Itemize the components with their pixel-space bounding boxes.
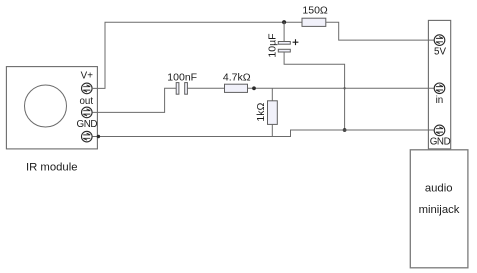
svg-text:audio: audio	[425, 183, 453, 195]
wire V+ pin to 150 ohm resistor	[92, 22, 302, 88]
junction dot on GND line below 10uF	[343, 128, 347, 132]
junction dot at IR module GND	[97, 135, 100, 138]
svg-text:V+: V+	[81, 71, 94, 82]
resistor R3 1k ohm (vertical)	[268, 101, 278, 125]
header connector box	[428, 20, 450, 149]
wire 1k resistor to GND line	[271, 124, 273, 136]
capacitor C2 100nF left plate	[176, 83, 179, 95]
wire 100nF to 4.7k resistor	[187, 87, 224, 89]
capacitor C2 100nF right plate	[185, 83, 188, 95]
capacitor C1 10uF top plate	[278, 42, 290, 45]
pin GND of IR module	[82, 131, 93, 142]
pin 5V of header	[434, 35, 445, 46]
wire GND pin of IR module to GND pin of header	[92, 130, 434, 137]
wire out pin to 100nF capacitor	[92, 88, 176, 112]
capacitor C1 10uF bottom plate	[278, 49, 290, 52]
svg-text:10µF: 10µF	[267, 33, 279, 57]
svg-text:100nF: 100nF	[167, 71, 197, 83]
wire V+ line to 10uF capacitor top plate	[283, 22, 285, 41]
svg-text:in: in	[436, 95, 444, 106]
svg-text:GND: GND	[430, 136, 451, 147]
junction dot at 10uF branch crossing in line	[343, 87, 345, 89]
pin V+ of IR module	[82, 83, 93, 94]
junction dot after 4.7k resistor	[252, 86, 256, 90]
resistor R2 4.7k ohm	[225, 84, 248, 92]
wire 10uF bottom plate to GND line	[284, 52, 345, 130]
svg-text:minijack: minijack	[419, 204, 460, 216]
resistor R1 150 ohm	[302, 18, 326, 26]
svg-text:4.7kΩ: 4.7kΩ	[223, 71, 251, 83]
wire 150 ohm resistor to 5V pin	[326, 22, 435, 40]
svg-text:150Ω: 150Ω	[302, 5, 328, 17]
svg-text:IR module: IR module	[26, 162, 78, 174]
svg-text:GND: GND	[77, 119, 98, 130]
audio minijack box	[410, 150, 468, 268]
IR module box	[6, 67, 97, 149]
svg-text:1kΩ: 1kΩ	[255, 103, 267, 122]
wire 4.7k resistor to in pin	[248, 87, 435, 89]
IR module sensor circle	[25, 85, 67, 127]
pin GND of header	[434, 125, 445, 136]
svg-text:out: out	[79, 96, 93, 107]
junction dot at capacitor tap on V+ line	[282, 20, 286, 24]
pin in of header	[434, 83, 445, 94]
svg-text:5V: 5V	[434, 47, 446, 58]
plus sign of polarized capacitor	[293, 39, 299, 45]
pin out of IR module	[82, 107, 93, 118]
wire in line to 1k resistor	[271, 88, 273, 101]
